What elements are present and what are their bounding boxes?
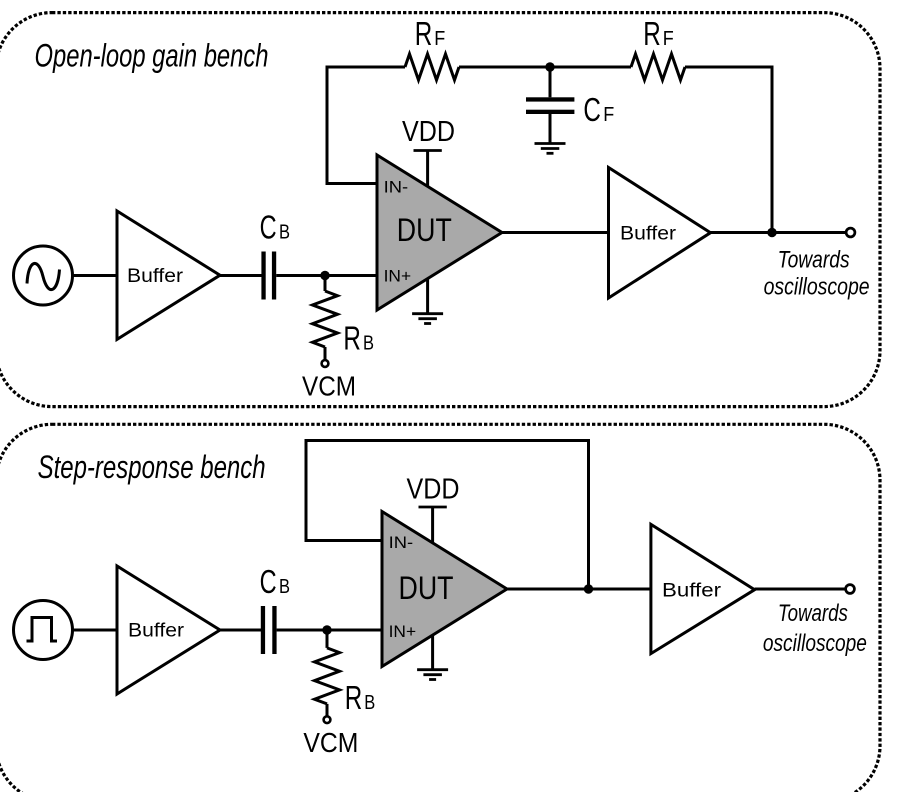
- svg-text:F: F: [603, 103, 614, 126]
- wire U3 to oscilloscope terminal: [711, 231, 847, 234]
- svg-text:B: B: [279, 575, 290, 598]
- svg-text:Buffer: Buffer: [127, 266, 184, 287]
- label Towards oscilloscope (top panel): [764, 246, 870, 300]
- wire RF1 to RF2: [459, 66, 631, 69]
- svg-text:F: F: [434, 27, 445, 50]
- wire V1 to buffer U1: [73, 274, 118, 277]
- op-amp DUT (top panel): [377, 155, 502, 310]
- svg-text:DUT: DUT: [397, 212, 452, 248]
- pulse symbol inside V2: [27, 618, 58, 642]
- panel border: step-response bench box: [0, 424, 880, 792]
- svg-text:IN-: IN-: [389, 533, 414, 552]
- ground below CF: [535, 144, 566, 154]
- wire U1 to CB: [220, 274, 262, 277]
- wire DUT output to buffer U5: [507, 588, 651, 591]
- svg-text:Open-loop gain bench: Open-loop gain bench: [35, 38, 269, 74]
- node junction dot at CF tap: [545, 62, 554, 71]
- svg-text:VCM: VCM: [303, 727, 358, 758]
- ground below DUT (top panel): [412, 279, 443, 324]
- capacitor CB (bottom panel): [261, 606, 277, 654]
- label CB bottom: [260, 563, 290, 600]
- label CF: [583, 91, 614, 128]
- svg-text:B: B: [363, 331, 374, 354]
- node junction dot output/feedback: [767, 228, 776, 237]
- label RF second: [643, 15, 674, 52]
- svg-text:oscilloscope: oscilloscope: [764, 274, 870, 301]
- terminal VCM (top panel): [322, 360, 329, 367]
- panel border: open-loop gain bench box: [0, 13, 880, 407]
- svg-text:R: R: [345, 679, 363, 716]
- node junction dot at RB tap (bottom): [322, 625, 331, 634]
- node junction dot output/feedback (bottom): [584, 584, 593, 593]
- svg-text:C: C: [583, 91, 601, 128]
- svg-text:B: B: [364, 691, 375, 714]
- wire CB to DUT IN+: [276, 274, 377, 277]
- resistor RB (top panel): [313, 276, 338, 361]
- svg-text:Towards: Towards: [778, 246, 850, 273]
- svg-text:Buffer: Buffer: [128, 621, 185, 642]
- ground below DUT (bottom panel): [417, 635, 448, 680]
- resistor RF (first, top feedback): [405, 54, 459, 80]
- source V2 pulse generator: [14, 601, 73, 660]
- svg-text:Towards: Towards: [778, 600, 848, 627]
- svg-text:F: F: [663, 27, 674, 50]
- svg-text:IN+: IN+: [389, 622, 417, 641]
- svg-text:Buffer: Buffer: [620, 223, 677, 244]
- label RB: [343, 319, 374, 356]
- wire DUT IN- feedback riser: [327, 67, 405, 184]
- svg-text:R: R: [415, 15, 433, 52]
- resistor RB (bottom panel): [315, 630, 340, 717]
- svg-text:VDD: VDD: [402, 116, 455, 148]
- svg-text:Step-response bench: Step-response bench: [38, 449, 266, 485]
- svg-text:IN+: IN+: [384, 267, 412, 286]
- wire DUT output to buffer U3: [502, 231, 609, 234]
- output terminal (bottom panel): [846, 585, 855, 594]
- wire RF2 to output riser: [685, 67, 772, 233]
- svg-text:C: C: [260, 208, 277, 245]
- VDD supply symbol (top panel): [414, 150, 442, 187]
- wire CB to DUT IN+ (bottom): [277, 629, 382, 632]
- svg-text:VCM: VCM: [302, 371, 356, 402]
- buffer U4: [117, 566, 220, 694]
- op-amp DUT (bottom panel): [382, 512, 507, 667]
- svg-text:DUT: DUT: [399, 570, 454, 606]
- resistor RF (second, top feedback): [631, 54, 685, 80]
- buffer U3 (top output): [609, 168, 711, 299]
- capacitor CF: [526, 67, 574, 144]
- terminal VCM (bottom panel): [324, 716, 331, 723]
- label CB: [260, 208, 290, 245]
- svg-text:IN-: IN-: [384, 177, 409, 196]
- wire U4 to CB: [220, 629, 262, 632]
- label RB bottom: [345, 679, 376, 716]
- buffer U5 (bottom output): [651, 524, 755, 653]
- svg-text:B: B: [279, 220, 290, 243]
- svg-text:VDD: VDD: [407, 473, 460, 505]
- source V1 sine generator: [14, 246, 73, 305]
- sine symbol inside V1: [27, 263, 60, 289]
- svg-text:Buffer: Buffer: [662, 580, 722, 601]
- wire feedback loop (bottom panel): [306, 441, 589, 590]
- capacitor CB (top panel): [261, 252, 276, 300]
- VDD supply symbol (bottom panel): [419, 507, 447, 544]
- node junction dot at RB tap: [320, 271, 329, 280]
- label RF first: [415, 15, 446, 52]
- svg-text:R: R: [343, 319, 361, 356]
- output terminal (top panel): [846, 228, 855, 237]
- svg-text:oscilloscope: oscilloscope: [763, 630, 867, 657]
- wire U5 to oscilloscope terminal: [755, 588, 846, 591]
- label Towards oscilloscope (bottom panel): [763, 600, 867, 657]
- svg-text:R: R: [643, 15, 661, 52]
- wire V2 to buffer U4: [73, 629, 118, 632]
- svg-text:C: C: [260, 563, 277, 600]
- buffer U1: [117, 211, 220, 339]
